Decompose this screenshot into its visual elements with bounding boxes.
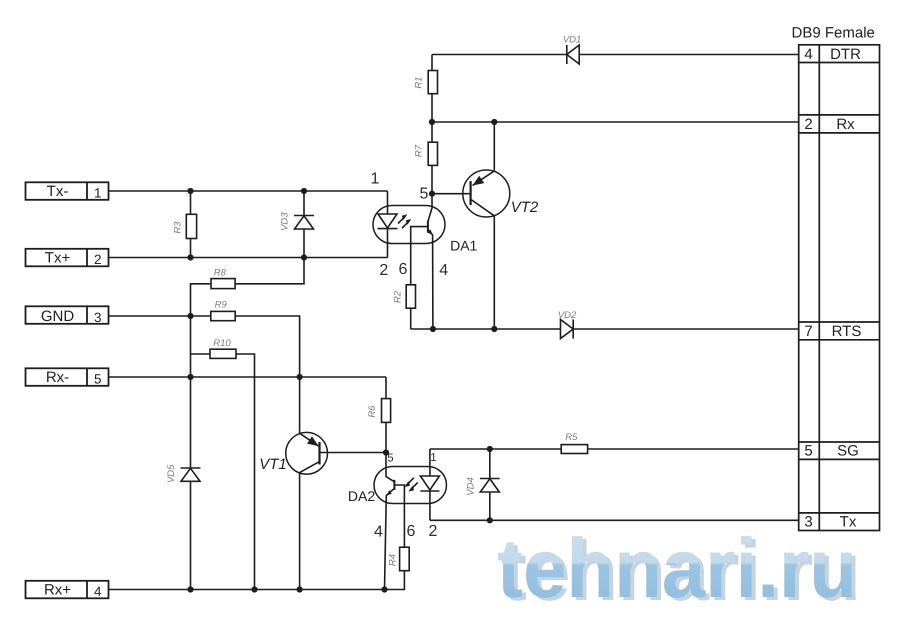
resistor R8 xyxy=(191,258,305,317)
svg-text:2: 2 xyxy=(804,116,812,133)
diode VD2 xyxy=(558,310,577,339)
svg-text:2: 2 xyxy=(94,252,102,267)
optocoupler DA1 light arrows xyxy=(398,214,411,228)
svg-text:R5: R5 xyxy=(565,432,578,443)
junction dot Rx-/R9/VT1 xyxy=(297,374,303,380)
junction dot VT1 base/R6/DA2 pin5 xyxy=(383,449,389,455)
svg-text:DA2: DA2 xyxy=(348,488,375,504)
DB9 pin 2 Rx row text xyxy=(804,116,855,133)
DB9 Female connector table xyxy=(792,25,880,531)
terminal Rx+ xyxy=(26,581,109,599)
DB9 pin 3 Tx row text xyxy=(804,514,856,531)
diode VD3 xyxy=(279,191,314,258)
DB9 pin 7 RTS row text xyxy=(804,323,861,340)
optocoupler DA1 body xyxy=(373,206,478,254)
junction dot Tx+/R3 xyxy=(187,254,193,260)
svg-text:R8: R8 xyxy=(214,267,227,278)
svg-text:5: 5 xyxy=(94,371,102,386)
junction dot R1/Rx line xyxy=(429,119,435,125)
junction dot Rx+ rail xyxy=(187,586,193,592)
terminal Tx+ xyxy=(26,249,109,267)
wire VT1 base xyxy=(320,452,386,454)
terminal Tx- xyxy=(26,182,109,200)
junction dot RTS/DA1 pin4 xyxy=(430,326,436,332)
junction dot SG/VD4 xyxy=(487,446,493,452)
junction dot Tx-/R3 xyxy=(187,188,193,194)
wire DTR net xyxy=(432,54,799,56)
diode VD4 xyxy=(465,449,499,520)
svg-text:3: 3 xyxy=(94,310,102,325)
transistor VT1 xyxy=(259,432,327,474)
wire RTS net xyxy=(411,328,799,330)
svg-text:VD1: VD1 xyxy=(563,35,581,46)
svg-text:4: 4 xyxy=(804,46,812,63)
svg-text:VD5: VD5 xyxy=(166,464,177,483)
svg-text:Rx-: Rx- xyxy=(46,369,69,386)
junction dot Tx-/VD3 xyxy=(301,188,307,194)
svg-text:tehnari.ru: tehnari.ru xyxy=(497,521,857,615)
svg-text:DTR: DTR xyxy=(830,46,861,63)
wire Tx+ net xyxy=(109,257,388,259)
svg-text:1: 1 xyxy=(430,452,436,464)
wire Rx- net xyxy=(109,376,387,378)
wire VT2 emitter xyxy=(493,122,495,171)
svg-text:VD3: VD3 xyxy=(279,212,290,231)
diode VD5 xyxy=(166,464,201,483)
resistor R1 xyxy=(413,55,437,123)
terminal Rx- xyxy=(26,368,109,386)
wire Rx net xyxy=(432,121,799,123)
svg-text:4: 4 xyxy=(94,584,102,599)
optocoupler DA2 LED (pins 1-2) xyxy=(420,449,439,520)
junction dot Tx+/VD3/R8 xyxy=(301,254,307,260)
svg-text:R4: R4 xyxy=(387,554,398,566)
svg-text:1: 1 xyxy=(94,185,102,200)
wire GND net xyxy=(109,315,211,317)
wire GND vertical rail xyxy=(190,316,192,590)
svg-text:R3: R3 xyxy=(173,221,184,234)
resistor R7 xyxy=(413,122,437,194)
svg-text:R10: R10 xyxy=(213,338,231,349)
svg-text:R9: R9 xyxy=(215,300,228,311)
diode VD1 xyxy=(563,35,581,65)
optocoupler DA2 phototransistor (pins 5,6,4) xyxy=(385,453,405,590)
resistor R3 xyxy=(173,191,197,258)
svg-text:Rx: Rx xyxy=(836,116,855,133)
junction dot Rx+/VT1 emitter xyxy=(297,586,303,592)
svg-text:7: 7 xyxy=(804,323,812,340)
svg-text:5: 5 xyxy=(804,443,812,460)
svg-text:1: 1 xyxy=(371,171,380,188)
svg-text:4: 4 xyxy=(374,524,383,541)
wire VT2 collector xyxy=(493,216,495,329)
svg-text:R2: R2 xyxy=(392,290,403,303)
svg-text:VT2: VT2 xyxy=(511,199,539,216)
resistor R4 xyxy=(385,547,410,589)
svg-text:4: 4 xyxy=(439,262,448,279)
svg-text:GND: GND xyxy=(41,308,75,325)
svg-text:5: 5 xyxy=(387,453,393,465)
svg-text:Rx+: Rx+ xyxy=(44,582,71,599)
svg-text:Tx+: Tx+ xyxy=(45,250,71,267)
resistor R10 xyxy=(191,338,255,590)
resistor R9 xyxy=(211,300,300,378)
optocoupler DA2 body xyxy=(348,467,447,505)
wire VT1 emitter xyxy=(299,473,301,590)
wire Rx+ net xyxy=(109,589,385,591)
junction dot Rx+/R10 xyxy=(251,586,257,592)
svg-text:R6: R6 xyxy=(367,405,378,418)
DB9 pin 5 SG row text xyxy=(804,443,858,460)
svg-text:VD4: VD4 xyxy=(465,477,476,495)
svg-text:6: 6 xyxy=(399,261,408,278)
wire VT1 collector xyxy=(299,377,301,433)
junction dot Rx- rail xyxy=(187,374,193,380)
optocoupler DA1 LED (pins 1-2) xyxy=(378,191,398,258)
svg-text:2: 2 xyxy=(428,523,437,540)
watermark tehnari.ru xyxy=(497,521,861,618)
svg-text:RTS: RTS xyxy=(832,323,862,340)
terminal GND xyxy=(26,306,109,325)
optocoupler DA2 light arrows xyxy=(405,478,418,492)
wire SG net xyxy=(430,448,799,450)
junction dot Tx/VD4 xyxy=(487,517,493,523)
svg-text:Tx-: Tx- xyxy=(47,183,69,200)
resistor R2 xyxy=(392,285,415,329)
junction dot Rx/VT2 emitter xyxy=(491,119,497,125)
wire Tx- net xyxy=(109,190,388,192)
transistor VT2 xyxy=(463,170,539,217)
junction dot RTS/VT2 collector xyxy=(491,326,497,332)
wire Tx net xyxy=(430,519,799,521)
junction dot GND node xyxy=(187,313,193,319)
svg-text:VT1: VT1 xyxy=(259,456,287,473)
svg-text:2: 2 xyxy=(379,262,388,279)
wire VT2 base xyxy=(432,193,471,195)
svg-text:6: 6 xyxy=(407,523,416,540)
svg-text:DA1: DA1 xyxy=(450,238,477,254)
svg-text:DB9 Female: DB9 Female xyxy=(792,25,875,42)
svg-text:R1: R1 xyxy=(413,77,424,89)
svg-text:5: 5 xyxy=(420,186,429,203)
junction dot Rx+/DA2 pin4/R4 xyxy=(381,586,387,592)
DB9 pin 4 DTR row text xyxy=(804,46,861,63)
junction dot DA1 pin5 node xyxy=(429,191,435,197)
svg-text:R7: R7 xyxy=(413,144,424,157)
resistor R5 xyxy=(561,432,587,453)
optocoupler DA1 phototransistor (pins 5,6,4) xyxy=(411,194,433,329)
svg-text:VD2: VD2 xyxy=(558,310,577,321)
resistor R6 xyxy=(367,377,390,453)
svg-text:SG: SG xyxy=(837,443,859,460)
